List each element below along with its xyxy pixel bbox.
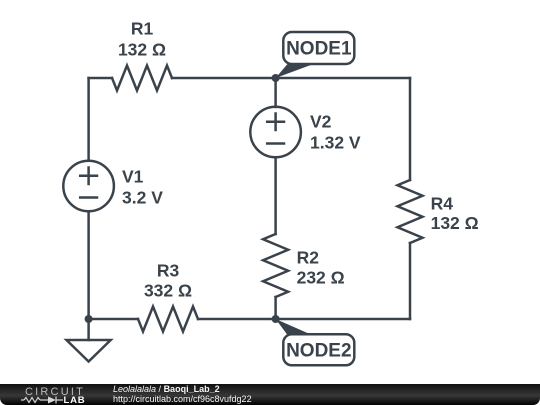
node NODE1 callout xyxy=(276,32,355,78)
wire top rail left segment xyxy=(89,77,112,80)
svg-text:R2: R2 xyxy=(297,248,320,268)
wire top rail right segment xyxy=(172,77,410,80)
CircuitLab logo xyxy=(0,384,110,405)
svg-text:132 Ω: 132 Ω xyxy=(118,39,166,59)
svg-text:LAB: LAB xyxy=(64,395,86,405)
svg-text:NODE1: NODE1 xyxy=(286,39,352,60)
node NODE2 callout xyxy=(276,319,355,365)
svg-text:NODE2: NODE2 xyxy=(286,341,351,362)
ground xyxy=(87,319,90,340)
wire right branch upper xyxy=(409,78,412,180)
resistor R3 xyxy=(138,307,198,332)
svg-text:3.2 V: 3.2 V xyxy=(122,187,163,207)
svg-text:V2: V2 xyxy=(310,111,332,131)
wire middle branch lower xyxy=(274,297,277,319)
wire left branch upper xyxy=(87,78,90,161)
svg-text:V1: V1 xyxy=(122,166,144,186)
wire left branch lower xyxy=(87,212,90,320)
svg-text:332 Ω: 332 Ω xyxy=(144,280,192,300)
svg-text:1.32 V: 1.32 V xyxy=(310,133,361,153)
wire middle branch mid xyxy=(274,158,277,235)
svg-text:132 Ω: 132 Ω xyxy=(431,213,479,233)
voltage source V1 xyxy=(63,161,114,212)
wire bottom rail left segment xyxy=(89,318,138,321)
svg-text:R1: R1 xyxy=(131,18,154,38)
wire bottom rail right segment xyxy=(198,318,410,321)
credits text xyxy=(113,385,252,404)
ground junction dot xyxy=(85,315,93,323)
svg-text:R4: R4 xyxy=(431,193,454,213)
svg-text:232 Ω: 232 Ω xyxy=(297,268,345,288)
node NODE1 junction dot xyxy=(272,74,280,82)
footer bar xyxy=(0,384,540,405)
wire middle branch upper xyxy=(274,78,277,107)
resistor R2 xyxy=(263,234,288,297)
resistor R4 xyxy=(398,180,423,243)
svg-text:R3: R3 xyxy=(157,261,180,281)
voltage source V2 xyxy=(250,107,301,158)
wire right branch lower xyxy=(409,243,412,319)
node NODE2 junction dot xyxy=(272,315,280,323)
resistor R1 xyxy=(112,66,172,91)
